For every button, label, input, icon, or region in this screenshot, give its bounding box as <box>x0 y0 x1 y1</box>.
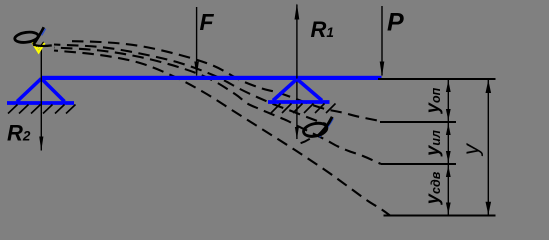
total dimension line <box>487 80 489 215</box>
svg-text:у: у <box>459 142 484 157</box>
support 1 hatching <box>8 105 76 114</box>
dim arrow up at top line <box>446 81 451 93</box>
wire R1 force line <box>296 5 298 140</box>
arrowhead P (down) <box>380 62 385 77</box>
support 2 base line <box>268 100 330 104</box>
deflection curve 4 (shear, dashed, ends at bottom line) <box>54 51 390 216</box>
deflection curve 1 (support rotation, dashed, ends at level-2 line) <box>72 41 380 121</box>
arrowhead R1 (up) <box>295 4 300 20</box>
support 1 triangle <box>17 79 65 102</box>
svg-text:F: F <box>200 9 215 35</box>
dim arrow down at level 2 <box>446 109 451 121</box>
total dim arrow down <box>486 202 492 215</box>
support 2 triangle <box>273 79 322 101</box>
yellow highlighted arrowhead <box>32 43 44 53</box>
wire P force line <box>381 6 383 76</box>
reference line bottom <box>384 214 496 216</box>
deflection curve 3 (bending, dashed, ends at level-3 line) <box>54 48 381 165</box>
arrowhead R2 (down) <box>39 137 43 151</box>
arrowhead small (down) below support 2 <box>295 127 299 140</box>
reference line level 3 <box>381 163 456 165</box>
reference line top <box>378 78 496 80</box>
dim arrow down at level 3 <box>446 151 451 163</box>
angle symbol alpha right <box>301 117 334 143</box>
svg-text:P: P <box>387 9 404 37</box>
arrowhead F (down) <box>194 62 199 77</box>
deflection curve 2 (dashed, fades at support displacement) <box>54 45 326 125</box>
dim arrow up at level 2 <box>446 124 451 136</box>
angle symbol alpha left <box>14 27 52 46</box>
dimension line stack <box>447 80 449 215</box>
support 2 hatching <box>271 104 336 114</box>
wire F force line <box>196 7 198 76</box>
beam <box>41 76 382 80</box>
support 1 base line <box>7 101 74 105</box>
wire R2 force line <box>40 47 42 151</box>
dim arrow up at level 3 <box>446 166 451 178</box>
total dim arrow up <box>486 80 492 93</box>
reference line level 2 <box>380 121 456 123</box>
dim arrow down at bottom line <box>446 203 451 215</box>
